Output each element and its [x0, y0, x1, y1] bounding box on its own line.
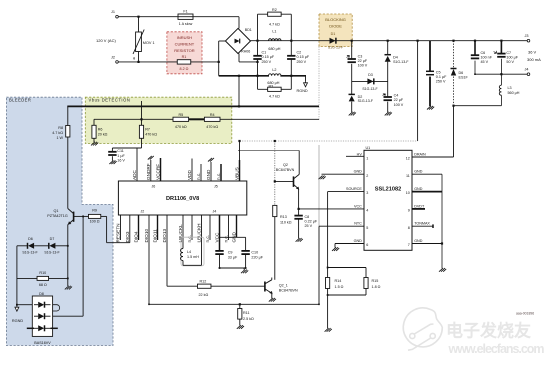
svg-text:VDD: VDD [187, 169, 192, 180]
svg-text:250 V: 250 V [297, 60, 307, 64]
svg-text:BLEEDER: BLEEDER [9, 98, 31, 103]
svg-text:TONMAX: TONMAX [414, 222, 430, 226]
svg-text:C8: C8 [305, 215, 310, 219]
svg-text:0.22 μF: 0.22 μF [305, 220, 318, 224]
svg-text:HV: HV [357, 152, 363, 156]
svg-text:C11: C11 [117, 149, 124, 153]
svg-text:D8: D8 [39, 292, 44, 296]
svg-text:n.c.: n.c. [205, 235, 210, 243]
svg-text:DRAIN: DRAIN [414, 152, 426, 156]
svg-text:GND: GND [414, 187, 423, 191]
svg-text:J4: J4 [213, 210, 217, 214]
svg-text:470 kΩ: 470 kΩ [206, 125, 218, 129]
svg-text:RGND: RGND [12, 319, 23, 323]
svg-text:250 V: 250 V [262, 60, 272, 64]
svg-text:电子发烧友: 电子发烧友 [446, 321, 531, 341]
svg-text:0.1 μF: 0.1 μF [436, 75, 447, 79]
svg-text:C2: C2 [297, 50, 302, 54]
svg-text:aaa-001896: aaa-001896 [516, 312, 534, 316]
svg-text:L3: L3 [508, 86, 512, 90]
svg-text:S1G-13-F: S1G-13-F [22, 251, 37, 255]
svg-text:560 μH: 560 μH [508, 91, 520, 95]
svg-text:1 A slow: 1 A slow [179, 22, 193, 26]
svg-text:D3: D3 [368, 73, 373, 77]
svg-text:DIO11: DIO11 [153, 229, 158, 243]
svg-text:BD1: BD1 [245, 28, 252, 32]
svg-text:DIO10: DIO10 [144, 229, 149, 243]
svg-text:n.c.: n.c. [216, 172, 221, 180]
svg-text:0.15 μF: 0.15 μF [297, 55, 310, 59]
svg-text:33 μF: 33 μF [228, 256, 238, 260]
svg-text:J2: J2 [141, 210, 145, 214]
svg-text:Vbus DETECTION: Vbus DETECTION [89, 98, 131, 103]
svg-text:R2: R2 [272, 8, 277, 12]
svg-text:R11: R11 [243, 311, 250, 315]
svg-text:D2: D2 [358, 95, 363, 99]
svg-text:R10: R10 [39, 271, 46, 275]
svg-text:Q2: Q2 [283, 163, 288, 167]
svg-text:R1: R1 [182, 55, 187, 59]
svg-text:10: 10 [406, 191, 410, 195]
svg-text:J2: J2 [111, 55, 115, 59]
svg-text:1.5 Ω: 1.5 Ω [335, 285, 344, 289]
svg-text:BLOCKING: BLOCKING [325, 17, 346, 22]
svg-text:SOURCE: SOURCE [346, 187, 362, 191]
svg-text:C6: C6 [481, 51, 486, 55]
svg-text:20 kΩ: 20 kΩ [98, 133, 108, 137]
svg-text:1 μF: 1 μF [117, 154, 125, 158]
svg-text:BC847BVN: BC847BVN [279, 289, 298, 293]
svg-text:1: 1 [366, 157, 368, 161]
svg-text:68 Ω: 68 Ω [39, 283, 47, 287]
svg-text:L2: L2 [272, 68, 276, 72]
svg-text:θ: θ [133, 56, 135, 60]
svg-text:L4: L4 [187, 250, 191, 254]
svg-text:LBUCKH: LBUCKH [197, 223, 202, 242]
svg-text:GNDRF: GNDRF [146, 163, 151, 180]
svg-text:RESETN: RESETN [116, 223, 121, 242]
svg-text:C7: C7 [506, 51, 511, 55]
svg-text:BC847BVN: BC847BVN [276, 168, 295, 172]
svg-text:RGND: RGND [297, 89, 308, 93]
svg-text:100 μF: 100 μF [506, 56, 518, 60]
svg-text:1.5 mH: 1.5 mH [187, 255, 199, 259]
svg-text:22 kΩ: 22 kΩ [199, 293, 209, 297]
svg-text:R9: R9 [92, 209, 97, 213]
svg-text:100 nF: 100 nF [481, 56, 493, 60]
svg-text:5: 5 [366, 226, 368, 230]
svg-text:S1G-13-F: S1G-13-F [358, 99, 373, 103]
svg-text:www.elecfans.com: www.elecfans.com [448, 342, 545, 356]
svg-text:ES1F: ES1F [459, 76, 469, 80]
svg-text:DIO3: DIO3 [125, 231, 130, 242]
svg-text:S1G-13-F: S1G-13-F [393, 60, 408, 64]
svg-text:680 μH: 680 μH [268, 47, 280, 51]
svg-text:NTC: NTC [354, 222, 362, 226]
svg-text:6: 6 [366, 243, 368, 247]
svg-text:F1: F1 [183, 10, 187, 14]
svg-text:R6: R6 [98, 127, 103, 131]
svg-text:R15: R15 [372, 279, 379, 283]
svg-text:100 Ω: 100 Ω [90, 220, 100, 224]
svg-text:n.c.: n.c. [196, 172, 201, 180]
svg-text:GND: GND [354, 170, 363, 174]
svg-text:R4: R4 [210, 113, 215, 117]
svg-text:PZTA42T1G: PZTA42T1G [47, 214, 68, 218]
svg-text:50 V: 50 V [506, 60, 514, 64]
svg-text:0.15 μF: 0.15 μF [262, 55, 275, 59]
svg-text:3: 3 [366, 191, 368, 195]
svg-text:R13: R13 [280, 215, 287, 219]
svg-text:J6: J6 [152, 185, 156, 189]
svg-text:VCCRF: VCCRF [156, 164, 161, 180]
svg-text:GND: GND [206, 169, 211, 180]
svg-text:4.7 kΩ: 4.7 kΩ [269, 23, 280, 27]
svg-text:R5: R5 [178, 113, 183, 117]
svg-text:8: 8 [408, 226, 410, 230]
svg-text:RESISTOR: RESISTOR [174, 48, 194, 53]
svg-text:16 V: 16 V [117, 158, 125, 162]
svg-text:R14: R14 [335, 279, 342, 283]
svg-text:7: 7 [408, 243, 410, 247]
svg-text:470 kΩ: 470 kΩ [145, 133, 157, 137]
svg-text:J1: J1 [111, 10, 115, 14]
svg-text:D6: D6 [459, 71, 464, 75]
svg-text:12: 12 [406, 157, 410, 161]
svg-text:CURRENT: CURRENT [175, 42, 195, 47]
svg-text:D1: D1 [331, 32, 336, 36]
svg-text:DIODE: DIODE [329, 24, 342, 29]
svg-text:VCC: VCC [354, 204, 362, 208]
svg-text:GND: GND [354, 239, 363, 243]
svg-text:9: 9 [408, 209, 410, 213]
svg-text:DR1106_0V8: DR1106_0V8 [166, 196, 199, 202]
svg-text:220 μF: 220 μF [251, 256, 263, 260]
svg-text:22 μF: 22 μF [394, 98, 404, 102]
svg-text:VCC: VCC [215, 232, 220, 243]
svg-text:4.7 kΩ: 4.7 kΩ [52, 131, 63, 135]
svg-text:GND: GND [414, 239, 423, 243]
svg-text:VBUS: VBUS [235, 167, 240, 180]
svg-text:MOV 1: MOV 1 [143, 41, 155, 45]
svg-text:C1: C1 [262, 50, 267, 54]
svg-text:ADC: ADC [132, 169, 137, 180]
svg-text:110 kΩ: 110 kΩ [280, 220, 292, 224]
svg-text:C4: C4 [394, 94, 399, 98]
svg-text:300 mA: 300 mA [527, 57, 541, 62]
svg-text:DIO13: DIO13 [162, 229, 167, 243]
svg-text:J4: J4 [525, 68, 529, 72]
svg-text:R8: R8 [58, 126, 63, 130]
svg-text:BAS16VV: BAS16VV [34, 341, 51, 345]
svg-text:U1: U1 [366, 146, 371, 150]
svg-text:J5: J5 [214, 185, 218, 189]
svg-text:4.7 kΩ: 4.7 kΩ [269, 94, 280, 98]
svg-text:1 W: 1 W [56, 136, 63, 140]
svg-text:100 V: 100 V [358, 64, 368, 68]
svg-text:S1G-13-F: S1G-13-F [44, 251, 59, 255]
svg-text:J3: J3 [525, 34, 529, 38]
svg-text:Q1: Q1 [54, 209, 59, 213]
svg-text:25 V: 25 V [305, 224, 313, 228]
svg-text:22 μF: 22 μF [358, 59, 368, 63]
svg-text:DIO4: DIO4 [134, 231, 139, 242]
svg-text:R7: R7 [145, 127, 150, 131]
svg-text:470 kΩ: 470 kΩ [175, 125, 187, 129]
svg-text:C10: C10 [251, 251, 258, 255]
svg-text:100 V: 100 V [394, 103, 404, 107]
svg-text:DVDT: DVDT [414, 204, 425, 208]
svg-text:2.5 kΩ: 2.5 kΩ [243, 317, 254, 321]
svg-text:11: 11 [406, 174, 410, 178]
svg-text:250 V: 250 V [436, 80, 446, 84]
svg-text:D4: D4 [393, 56, 398, 60]
svg-text:2: 2 [366, 174, 368, 178]
svg-text:R12: R12 [200, 279, 207, 283]
svg-text:R3: R3 [269, 84, 274, 88]
svg-text:C5: C5 [436, 70, 441, 74]
svg-text:S1G-13-F: S1G-13-F [328, 46, 343, 50]
svg-text:4: 4 [366, 209, 368, 213]
svg-text:L1: L1 [272, 29, 276, 33]
svg-text:SSL21082: SSL21082 [375, 187, 401, 193]
svg-text:45 V: 45 V [481, 60, 489, 64]
svg-text:C9: C9 [228, 251, 233, 255]
svg-text:36 V: 36 V [528, 49, 537, 54]
svg-text:D6: D6 [28, 237, 33, 241]
svg-text:1.8 Ω: 1.8 Ω [372, 285, 381, 289]
svg-text:GND: GND [414, 170, 423, 174]
svg-text:S1G-13-F: S1G-13-F [362, 87, 377, 91]
svg-text:120 V (AC): 120 V (AC) [96, 38, 116, 43]
svg-text:n.c.: n.c. [187, 235, 192, 243]
svg-text:8.2 Ω: 8.2 Ω [180, 67, 189, 71]
svg-text:Q2_1: Q2_1 [279, 284, 288, 288]
svg-text:n.c.: n.c. [224, 235, 229, 243]
svg-text:C3: C3 [358, 54, 363, 58]
svg-text:D7: D7 [50, 237, 55, 241]
svg-text:INRUSH: INRUSH [177, 35, 192, 40]
svg-text:RH06: RH06 [241, 49, 250, 53]
